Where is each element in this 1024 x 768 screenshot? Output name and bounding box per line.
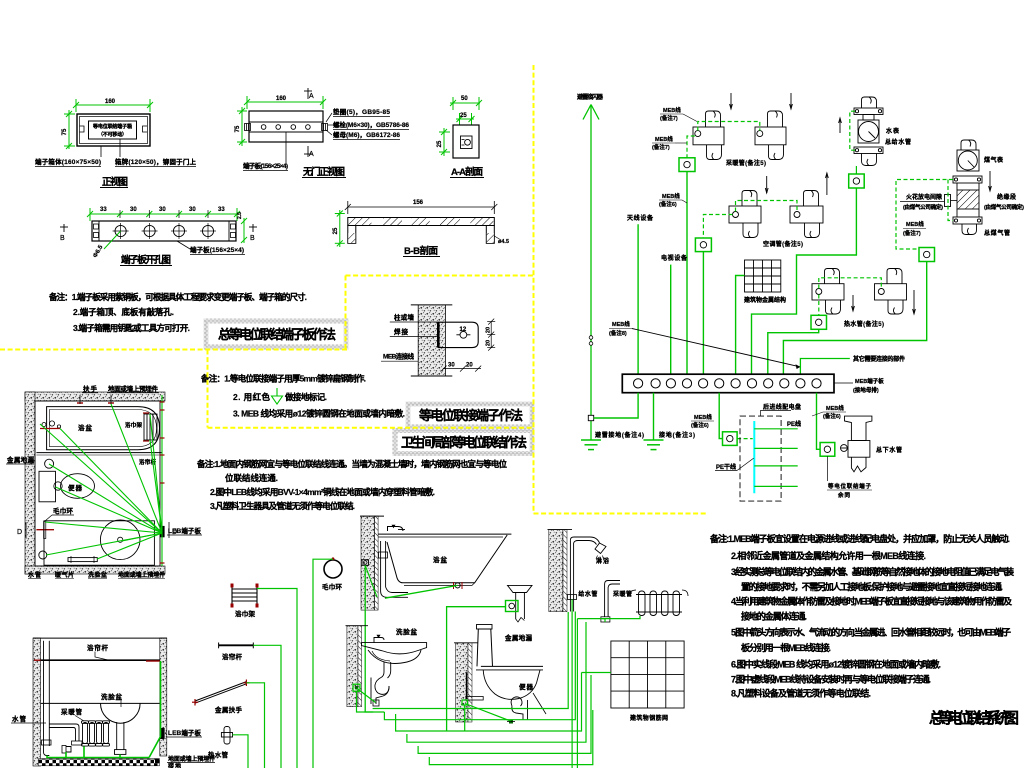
bathtub plan 浴盆 xyxy=(47,407,160,450)
wire AC clamp to MEB bar xyxy=(702,252,704,375)
svg-text:螺母(M6)，GB6172-86: 螺母(M6)，GB6172-86 xyxy=(333,130,400,139)
svg-text:12: 12 xyxy=(460,327,467,333)
svg-text:便器: 便器 xyxy=(68,483,83,492)
svg-text:总等电位联结系统图: 总等电位联结系统图 xyxy=(929,709,1019,727)
bolt part labels with leaders xyxy=(326,113,332,122)
floor embedment strip xyxy=(39,759,160,766)
svg-text:75: 75 xyxy=(62,128,68,135)
leader line MEB线8 xyxy=(632,329,800,367)
bonding clamp (water meter) xyxy=(849,174,865,188)
plan room outline xyxy=(35,401,160,566)
bathroom plan: left wall xyxy=(25,392,35,574)
hot water coupling 1 xyxy=(812,269,844,315)
wire gas clamp to MEB bar xyxy=(783,262,926,375)
building metal structure grid 建筑物金属结构 xyxy=(745,260,781,292)
earth symbol lightning xyxy=(581,440,601,450)
conductor break circles xyxy=(589,336,593,340)
svg-text:(备注6): (备注6) xyxy=(691,421,709,429)
no-door view: section marker A top xyxy=(304,88,312,99)
front view 正视图 dimension 160 xyxy=(73,99,153,112)
svg-text:箱牌(120×50)，铆固于门上: 箱牌(120×50)，铆固于门上 xyxy=(115,157,197,166)
faucet xyxy=(374,638,384,643)
svg-text:3. MEB 线均采用ø12镀锌圆钢在地面或墙内暗敷.: 3. MEB 线均采用ø12镀锌圆钢在地面或墙内暗敷. xyxy=(233,409,405,419)
flow arrow water xyxy=(839,118,842,133)
heating supply pipes 采暖管 xyxy=(605,581,620,617)
left bolt xyxy=(245,124,251,131)
svg-text:绝缘段: 绝缘段 xyxy=(997,193,1016,201)
svg-text:25: 25 xyxy=(460,113,467,119)
svg-text:33: 33 xyxy=(100,207,107,213)
AC pipe coupling 1 xyxy=(729,191,761,238)
radiator (system fig) xyxy=(636,591,682,616)
meter bypass jumper (dashed) xyxy=(850,111,855,150)
right mounting ear xyxy=(143,126,148,132)
svg-text:螺栓(M6×30)，GB5786-86: 螺栓(M6×30)，GB5786-86 xyxy=(333,120,409,129)
MEB branch to clamp (dashed) xyxy=(687,136,695,158)
svg-text:便器: 便器 xyxy=(519,682,534,691)
earth symbol 2 xyxy=(644,440,664,450)
svg-text:25: 25 xyxy=(333,227,339,234)
washbasin body xyxy=(362,643,427,654)
svg-text:75: 75 xyxy=(235,125,241,132)
flow arrows heating xyxy=(730,93,793,109)
washbasin section wall xyxy=(347,626,358,707)
svg-text:2.5: 2.5 xyxy=(237,212,243,219)
svg-text:地面或墙上预埋件: 地面或墙上预埋件 xyxy=(108,384,159,393)
right dims 20 20 xyxy=(487,319,495,351)
no-door view dimension 160 xyxy=(244,96,326,109)
svg-text:20: 20 xyxy=(466,363,473,369)
shower pipe and head 淋浴 xyxy=(569,540,571,611)
curtain rod xyxy=(41,659,160,661)
right leg xyxy=(486,226,494,244)
left leg xyxy=(348,226,356,244)
svg-text:D: D xyxy=(17,529,22,536)
svg-text:(由煤气公司确定): (由煤气公司确定) xyxy=(984,203,1024,211)
leader ø4.5 xyxy=(494,236,501,240)
supply tap on pipe xyxy=(568,595,577,600)
towel ring 毛巾环 xyxy=(324,560,342,578)
svg-text:置的接地要求时，不需另加人工接地板.保护接地与避雷接地宜直接: 置的接地要求时，不需另加人工接地板.保护接地与避雷接地宜直接短接地连通. xyxy=(741,581,1003,592)
water pipe circle xyxy=(39,551,47,559)
svg-text:总等电位联结端子板作法: 总等电位联结端子板作法 xyxy=(218,327,336,342)
bonding clamp (hot water) xyxy=(811,315,827,329)
toilet section wall xyxy=(456,643,469,722)
title box 等电位联接端子作法 xyxy=(408,404,532,427)
yellow divider V down from H1 left of notes xyxy=(207,350,209,428)
svg-text:33: 33 xyxy=(218,207,225,213)
svg-text:MEB线: MEB线 xyxy=(662,192,680,200)
trap bonding fitting xyxy=(509,720,513,724)
svg-text:等电位联接端子作法: 等电位联接端子作法 xyxy=(418,408,523,423)
vertical dimension 75 xyxy=(64,110,75,149)
svg-text:160: 160 xyxy=(105,99,116,105)
right bolt xyxy=(322,124,328,131)
svg-text:火花放电间隙: 火花放电间隙 xyxy=(906,193,942,201)
svg-text:等电位联结端子: 等电位联结端子 xyxy=(827,482,871,490)
AC pipe coupling 2 xyxy=(790,191,823,238)
rebar mesh 建筑物钢筋网 xyxy=(611,641,684,708)
B-B profile top bar xyxy=(348,218,495,226)
svg-text:电视设备: 电视设备 xyxy=(661,254,688,262)
wire MEB bar to drain clamp xyxy=(817,393,821,450)
toilet plan 便器: tank xyxy=(39,471,56,502)
wall plate detail: column wall xyxy=(418,305,445,376)
yellow divider H3 under notes xyxy=(208,427,534,429)
washbasin bowl xyxy=(101,703,141,723)
svg-text:3.经实测总等电位联结内的金属水管、基础钢筋等自然接地体的接: 3.经实测总等电位联结内的金属水管、基础钢筋等自然接地体的接地电阻值已满足电气装 xyxy=(731,566,1015,577)
LEB bonding wires radiating xyxy=(40,395,162,566)
radiator ground wire xyxy=(577,619,605,622)
PE trunk line (cyan) xyxy=(753,421,755,493)
svg-text:MEB线: MEB线 xyxy=(663,106,681,114)
floor drain 金属地漏 xyxy=(508,585,533,592)
svg-text:总给水管: 总给水管 xyxy=(885,138,911,146)
svg-text:板分别用一根MEB线连接.: 板分别用一根MEB线连接. xyxy=(741,642,831,653)
washbasin plan 洗脸盆 xyxy=(100,520,140,560)
wire from towel rack xyxy=(257,589,297,768)
clamp on wall pipe xyxy=(362,560,369,566)
plate holes xyxy=(261,125,310,130)
counter line xyxy=(41,702,160,704)
svg-text:6.图中实线段MEB 线均采用ø12镀锌圆钢在地面或墙内暗敷: 6.图中实线段MEB 线均采用ø12镀锌圆钢在地面或墙内暗敷. xyxy=(731,658,941,669)
section view right wall xyxy=(160,638,167,756)
heating pipe coupling 1 xyxy=(693,111,724,160)
svg-text:暖气片: 暖气片 xyxy=(55,571,74,579)
svg-text:（不可移动）: （不可移动） xyxy=(98,131,127,138)
svg-text:D: D xyxy=(172,529,177,536)
wire grid to MEB bar xyxy=(736,276,745,375)
terminal plate bar 端子板 xyxy=(92,221,236,241)
terminal box body 正视图 xyxy=(77,114,150,146)
svg-text:浴帘杆: 浴帘杆 xyxy=(139,458,156,466)
wire MEB bar to PE clamp xyxy=(719,393,722,439)
svg-text:天线设备: 天线设备 xyxy=(627,214,654,222)
bonding clamp (gas) xyxy=(919,248,935,262)
svg-text:MEB线: MEB线 xyxy=(826,404,844,412)
svg-text:浴帘杆: 浴帘杆 xyxy=(222,652,243,661)
drill view dimension chain 33 30 30 30 33 xyxy=(87,208,240,221)
B-B section dimension 156 xyxy=(345,201,498,214)
title box 卫生间局部等电位联结作法 xyxy=(395,431,532,454)
bonding clamp (AC) xyxy=(695,238,711,252)
svg-text:备注:1.MEB端子板宜设置在电源进线或进线配电盘处，并应加: 备注:1.MEB端子板宜设置在电源进线或进线配电盘处，并应加罩，防止无关人员触动… xyxy=(709,533,1010,544)
svg-text:端子箱体(160×75×50): 端子箱体(160×75×50) xyxy=(35,157,101,166)
A-A inner terminal xyxy=(461,136,473,149)
section marker A bottom xyxy=(304,146,312,157)
svg-text:避雷接地(备注4): 避雷接地(备注4) xyxy=(594,431,644,439)
terminal plate strip xyxy=(249,121,323,123)
radiator 4 tubes xyxy=(82,721,110,746)
svg-text:25: 25 xyxy=(437,140,443,147)
drilled holes with crosshairs xyxy=(115,225,214,236)
svg-text:浴盆: 浴盆 xyxy=(433,555,448,564)
svg-text:备注:1.地面内钢筋网宜与等电位联结线连通。当墙为混凝土墙时: 备注:1.地面内钢筋网宜与等电位联结线连通。当墙为混凝土墙时，墙内钢筋网也宜与等… xyxy=(196,459,507,469)
hatched segments xyxy=(349,218,372,225)
svg-text:余同: 余同 xyxy=(837,491,850,499)
svg-text:MEB线: MEB线 xyxy=(612,320,630,328)
svg-text:MEB端子板: MEB端子板 xyxy=(855,377,884,385)
yellow divider V2 xyxy=(533,65,535,514)
svg-text:LEB端子板: LEB端子板 xyxy=(168,728,202,737)
svg-text:位联结线连通.: 位联结线连通. xyxy=(225,473,278,483)
tub faucet xyxy=(388,527,403,532)
section marker B left xyxy=(60,224,68,232)
svg-text:(由煤气公司确定): (由煤气公司确定) xyxy=(903,203,943,211)
svg-text:端子板开孔图: 端子板开孔图 xyxy=(121,254,171,266)
svg-text:A: A xyxy=(309,93,314,100)
bonding wire washbasin xyxy=(357,689,376,703)
svg-text:总煤气管: 总煤气管 xyxy=(984,229,1010,237)
svg-text:PE线: PE线 xyxy=(787,420,801,428)
svg-text:4.当利用建筑物金属体作防雷及接地时,MEB端子板宜直接短接: 4.当利用建筑物金属体作防雷及接地时,MEB端子板宜直接短接地与该建筑物用作防雷… xyxy=(731,596,1013,607)
green grounding mark symbol xyxy=(272,388,283,404)
svg-text:3.端子箱需用钥匙或工具方可打开.: 3.端子箱需用钥匙或工具方可打开. xyxy=(73,323,190,333)
svg-text:(备注7): (备注7) xyxy=(652,143,670,151)
svg-text:备注：1.端子板采用紫铜板，可根据具体工程要求变更端子板、端: 备注：1.端子板采用紫铜板，可根据具体工程要求变更端子板、端子箱的尺寸. xyxy=(48,292,307,302)
svg-text:备注：1.等电位联接端子用厚5mm镀锌扁钢制作.: 备注：1.等电位联接端子用厚5mm镀锌扁钢制作. xyxy=(200,374,366,384)
flow arrows AC xyxy=(765,176,768,193)
wall clamp washbasin xyxy=(353,684,360,691)
svg-text:建筑物金属结构: 建筑物金属结构 xyxy=(744,296,786,304)
wire from grab bar xyxy=(246,683,264,768)
svg-text:给水管: 给水管 xyxy=(578,590,597,598)
left faucet xyxy=(36,529,54,531)
yellow divider H4 xyxy=(534,513,707,515)
flow arrows hot water xyxy=(852,290,916,314)
svg-text:(备注6): (备注6) xyxy=(823,412,841,420)
bathroom plan: bottom wall xyxy=(25,566,165,574)
name plate 箱牌 xyxy=(89,121,137,139)
svg-text:金属扶手: 金属扶手 xyxy=(214,705,243,714)
svg-text:8.凡塑料设备及管道无须作等电位联结.: 8.凡塑料设备及管道无须作等电位联结. xyxy=(731,688,871,699)
lower room outline xyxy=(44,521,154,565)
svg-text:淋浴: 淋浴 xyxy=(596,557,610,565)
svg-text:(接地母排): (接地母排) xyxy=(853,386,879,394)
bathroom plan: top wall xyxy=(25,392,165,401)
ceiling line xyxy=(33,637,167,639)
bonding wire tub drain xyxy=(385,585,458,598)
LEB terminal plate (section) xyxy=(160,728,165,739)
svg-text:浴巾架: 浴巾架 xyxy=(235,609,256,618)
svg-text:浴盆: 浴盆 xyxy=(78,423,93,432)
bathtub section: wall xyxy=(361,516,375,610)
svg-text:30: 30 xyxy=(189,207,196,213)
svg-text:水管: 水管 xyxy=(12,714,27,723)
distribution panel dashed box xyxy=(740,416,781,501)
svg-text:浴巾架: 浴巾架 xyxy=(125,421,142,429)
svg-text:扶手: 扶手 xyxy=(83,384,98,393)
svg-text:MEB线: MEB线 xyxy=(694,413,712,421)
svg-text:热水管(备注5): 热水管(备注5) xyxy=(844,320,884,328)
svg-text:PE干线: PE干线 xyxy=(716,463,736,471)
svg-text:30: 30 xyxy=(159,207,166,213)
bottom dims 30 20 xyxy=(441,366,482,372)
svg-text:避雷接闪器: 避雷接闪器 xyxy=(576,93,604,101)
svg-text:垫圈(5)，GB95-85: 垫圈(5)，GB95-85 xyxy=(333,107,390,116)
wire from shower supply xyxy=(571,600,573,768)
svg-text:采暖管: 采暖管 xyxy=(61,707,83,716)
toilet wall clamp xyxy=(462,700,468,705)
bonding wire down wall xyxy=(365,565,384,712)
MEB jumper wire heating (dashed) xyxy=(698,122,760,131)
LEB bonding wire (section) xyxy=(47,661,161,758)
towel rack 浴巾架 xyxy=(232,586,257,606)
A-A section dim 50 xyxy=(450,97,482,110)
svg-text:B: B xyxy=(60,235,65,242)
svg-text:2.图中LEB线均采用BVV-1×4mm²铜线在地面或墙内穿: 2.图中LEB线均采用BVV-1×4mm²铜线在地面或墙内穿塑料管暗敷. xyxy=(210,487,435,497)
shower section wall xyxy=(549,530,563,612)
svg-text:毛巾环: 毛巾环 xyxy=(322,582,343,591)
yellow divider H2 xyxy=(346,275,534,277)
bathtub body xyxy=(378,534,511,583)
svg-text:MEB线: MEB线 xyxy=(655,135,673,143)
toilet tank xyxy=(477,629,493,666)
svg-text:2.端子箱顶、底板有敲落孔.: 2.端子箱顶、底板有敲落孔. xyxy=(73,307,174,317)
svg-text:接地的金属体连通.: 接地的金属体连通. xyxy=(741,610,807,621)
wire clamp to MEB bar xyxy=(686,172,688,375)
svg-text:水管: 水管 xyxy=(28,571,41,579)
no-door box body xyxy=(249,111,323,142)
gas meter bypass jumper (dashed) xyxy=(896,180,953,250)
bolt hole with wings xyxy=(460,331,467,338)
svg-text:(备注7): (备注7) xyxy=(660,114,678,122)
svg-text:(备注8): (备注8) xyxy=(609,329,627,337)
A-A dim 25 xyxy=(456,113,475,125)
svg-text:20: 20 xyxy=(486,327,492,333)
svg-text:MEB连接线: MEB连接线 xyxy=(383,352,415,361)
MEB terminal bar xyxy=(622,374,834,393)
svg-text:洗脸盆: 洗脸盆 xyxy=(88,571,108,579)
bonding clamp (PE) xyxy=(723,432,738,446)
svg-text:A-A剖面: A-A剖面 xyxy=(451,166,483,178)
svg-text:金属地漏: 金属地漏 xyxy=(6,455,35,464)
svg-text:(备注7): (备注7) xyxy=(903,229,921,237)
yellow zone divider H1 xyxy=(0,349,347,351)
svg-text:等电位联结端子箱: 等电位联结端子箱 xyxy=(93,123,132,130)
gas meter assembly 煤气表 xyxy=(953,140,982,235)
vertical dim 75 (no-door) xyxy=(237,107,247,146)
svg-text:地面或墙上预埋件: 地面或墙上预埋件 xyxy=(118,571,165,579)
lightning down conductor arrow xyxy=(583,105,599,441)
bonding wire toilet xyxy=(465,704,511,722)
svg-text:160: 160 xyxy=(276,96,287,102)
earth wire 2 xyxy=(653,393,655,440)
hole size leader Φ6.5 xyxy=(104,231,121,249)
svg-text:其它需要连接的部件: 其它需要连接的部件 xyxy=(853,355,905,363)
basin pedestal xyxy=(116,722,118,750)
svg-text:毛巾环: 毛巾环 xyxy=(53,506,74,515)
svg-text:洗脸盆: 洗脸盆 xyxy=(396,627,418,636)
wire hot water clamp to MEB bar xyxy=(768,329,819,374)
wall bracket toilet xyxy=(466,672,468,699)
left mounting ear xyxy=(80,126,85,132)
section view left wall xyxy=(33,638,41,766)
svg-text:30: 30 xyxy=(448,363,455,369)
PE branch lines xyxy=(754,429,797,487)
MEB jumper AC (dashed) xyxy=(736,201,798,212)
spark gap device xyxy=(945,195,951,207)
svg-text:A: A xyxy=(309,151,314,158)
toilet bowl xyxy=(61,474,95,499)
curtain rod 浴帘杆 xyxy=(219,644,254,646)
toilet seat/bowl xyxy=(481,665,543,667)
svg-text:ø4.5: ø4.5 xyxy=(498,239,509,245)
leader lines xyxy=(100,146,102,157)
svg-text:5.图中箭头方向表示水、气流动的方向.当金属进、回水管相距较: 5.图中箭头方向表示水、气流动的方向.当金属进、回水管相距较远时，也可由MEB端… xyxy=(731,627,1011,638)
wire from curtain rod xyxy=(253,645,281,768)
svg-text:接地(备注3): 接地(备注3) xyxy=(658,431,695,439)
heating pipe coupling 2 xyxy=(755,111,786,160)
other parts wire 其它需要连接的部件 xyxy=(800,359,849,375)
A-A vertical dim 25 xyxy=(439,128,450,156)
basin trap pipes xyxy=(375,662,389,694)
overflow pipe on wall xyxy=(380,541,382,591)
label 等电位联结端子 余同 xyxy=(826,456,828,481)
svg-text:30: 30 xyxy=(130,207,137,213)
svg-text:卫生间局部等电位联结作法: 卫生间局部等电位联结作法 xyxy=(401,435,527,450)
svg-text:浴帘杆: 浴帘杆 xyxy=(87,643,109,652)
svg-text:水表: 水表 xyxy=(886,127,900,135)
hot water pipe stub 热水管 xyxy=(221,727,232,745)
bonding clamp (drain) xyxy=(820,443,835,457)
lightning earth tap xyxy=(588,415,593,420)
svg-text:做接地标记.: 做接地标记. xyxy=(284,392,327,402)
svg-text:洗脸盆: 洗脸盆 xyxy=(101,692,123,701)
wire from floor drain xyxy=(447,607,506,731)
svg-text:煤气表: 煤气表 xyxy=(984,156,1004,164)
svg-text:156: 156 xyxy=(413,200,424,206)
svg-text:热水管: 热水管 xyxy=(208,750,229,759)
water meter assembly 水表 xyxy=(854,97,883,166)
svg-text:建筑物钢筋网: 建筑物钢筋网 xyxy=(630,714,668,722)
hot water coupling 2 xyxy=(875,269,907,315)
leader to plate label xyxy=(285,132,287,163)
section marker B right xyxy=(249,224,257,232)
svg-text:采暖管(备注5): 采暖管(备注5) xyxy=(726,159,766,167)
yellow divider V1a xyxy=(345,276,347,350)
svg-text:20: 20 xyxy=(486,340,492,346)
radiator plan 暖气片 xyxy=(68,558,97,562)
svg-text:无门正视图: 无门正视图 xyxy=(302,166,345,178)
svg-text:后进线配电盘: 后进线配电盘 xyxy=(763,403,801,411)
svg-text:柱或墙: 柱或墙 xyxy=(394,313,415,322)
svg-text:金属地漏: 金属地漏 xyxy=(504,633,533,642)
drain clamp xyxy=(506,601,519,612)
svg-text:B-B剖面: B-B剖面 xyxy=(404,245,438,257)
cascade bonding wires to system figure xyxy=(373,612,568,709)
wire into rebar mesh xyxy=(582,672,611,674)
svg-text:(备注6): (备注6) xyxy=(659,200,677,208)
tub faucet fittings xyxy=(42,423,46,427)
anchor marks on right wall xyxy=(160,402,165,563)
towel rack plan 浴巾架 xyxy=(144,414,157,440)
supply pipe elbows xyxy=(49,724,79,741)
leader to plate label xyxy=(177,241,192,249)
B-B vertical dim 25 xyxy=(335,210,345,247)
svg-text:2.相邻近金属管道及金属结构允许用一根MEB线连接.: 2.相邻近金属管道及金属结构允许用一根MEB线连接. xyxy=(731,550,926,561)
main drain pipe 总下水管 xyxy=(841,416,872,472)
right small green dim xyxy=(241,218,247,243)
svg-text:50: 50 xyxy=(461,96,468,102)
svg-text:正视图: 正视图 xyxy=(102,176,128,188)
floor drain plan xyxy=(45,459,54,468)
water pipe 水管 xyxy=(43,641,45,752)
flow arrow near water clamp xyxy=(826,173,829,195)
MEB terminal plate welded xyxy=(439,322,479,347)
svg-text:空调管(备注5): 空调管(备注5) xyxy=(763,240,803,248)
flow arrow gas xyxy=(989,171,992,191)
